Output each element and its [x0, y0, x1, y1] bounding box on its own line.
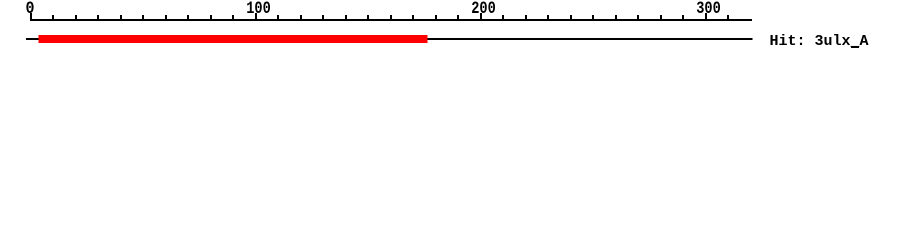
svg-text:200: 200	[471, 0, 496, 18]
minor tick 60	[165, 15, 167, 21]
major tick 100	[255, 13, 257, 21]
minor tick 280	[660, 15, 662, 21]
minor tick 220	[525, 15, 527, 21]
minor tick 160	[390, 15, 392, 21]
minor tick 120	[300, 15, 302, 21]
background	[0, 0, 900, 60]
minor tick 20	[75, 15, 77, 21]
minor tick 270	[637, 15, 639, 21]
minor tick 210	[502, 15, 504, 21]
svg-text:Hit: 3ulx_A: Hit: 3ulx_A	[770, 33, 869, 50]
major tick 300	[705, 13, 707, 21]
minor tick 40	[120, 15, 122, 21]
minor tick 90	[232, 15, 234, 21]
minor tick 180	[435, 15, 437, 21]
minor tick 310	[727, 15, 729, 21]
minor tick 250	[592, 15, 594, 21]
minor tick 80	[210, 15, 212, 21]
minor tick 130	[322, 15, 324, 21]
minor tick 70	[187, 15, 189, 21]
minor tick 140	[345, 15, 347, 21]
minor tick 10	[52, 15, 54, 21]
minor tick 190	[457, 15, 459, 21]
minor tick 50	[142, 15, 144, 21]
svg-text:300: 300	[696, 0, 721, 18]
minor tick 230	[547, 15, 549, 21]
minor tick 150	[367, 15, 369, 21]
major tick 200	[480, 13, 482, 21]
major tick 0	[30, 13, 32, 21]
minor tick 290	[682, 15, 684, 21]
minor tick 170	[412, 15, 414, 21]
minor tick 30	[97, 15, 99, 21]
minor tick 260	[615, 15, 617, 21]
minor tick 110	[277, 15, 279, 21]
ruler axis line	[30, 19, 752, 21]
svg-text:100: 100	[246, 0, 271, 18]
underscore bold stroke of hit label	[851, 46, 859, 48]
query line	[26, 38, 752, 40]
hit coverage bar (red)	[39, 35, 428, 43]
minor tick 240	[570, 15, 572, 21]
